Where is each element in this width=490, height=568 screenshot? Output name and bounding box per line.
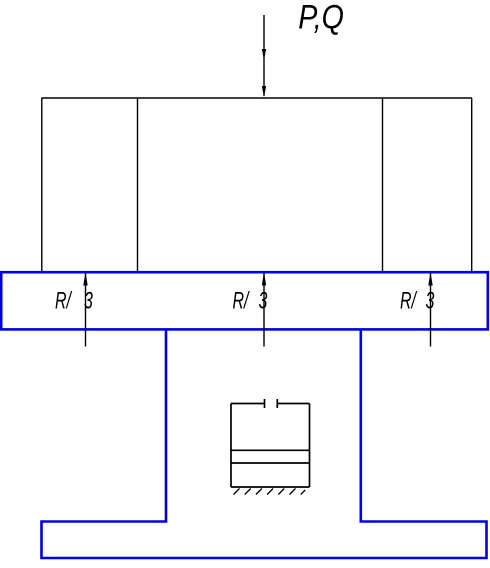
svg-text:R/: R/ xyxy=(233,287,251,314)
svg-text:R/: R/ xyxy=(400,287,418,314)
svg-text:P,Q: P,Q xyxy=(298,0,344,36)
svg-text:3: 3 xyxy=(84,287,93,314)
svg-text:3: 3 xyxy=(426,287,435,314)
svg-text:R/: R/ xyxy=(55,287,73,314)
svg-text:3: 3 xyxy=(259,287,268,314)
